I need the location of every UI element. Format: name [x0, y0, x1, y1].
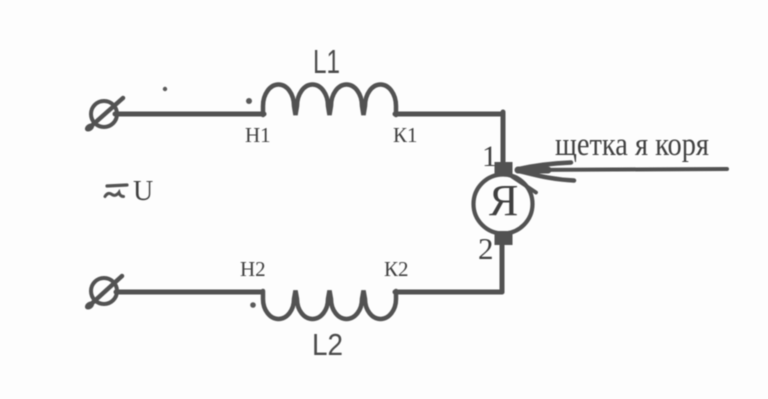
- node dot below L2 start: [250, 302, 256, 308]
- svg-text:Я: Я: [489, 176, 518, 225]
- svg-text:Н1: Н1: [245, 123, 271, 147]
- terminal X1 (top-left plug symbol): [83, 98, 123, 133]
- arrow head core: [518, 167, 548, 174]
- wire vertical down from brush 2: [500, 243, 505, 292]
- AC symbol (line over tilde): [105, 185, 127, 197]
- brush 1 (top brush, filled block): [495, 162, 513, 176]
- brush 2 (bottom brush, filled block): [495, 231, 513, 245]
- wire top rail left segment: [115, 112, 264, 117]
- svg-text:U: U: [133, 176, 153, 207]
- svg-text:К2: К2: [384, 257, 409, 281]
- svg-text:L1: L1: [313, 43, 340, 80]
- brush hatch stroke: [508, 174, 537, 193]
- svg-text:Н2: Н2: [240, 257, 266, 281]
- arrow head barb lower: [519, 171, 574, 181]
- svg-text:L2: L2: [312, 327, 343, 362]
- arrow (leader to brush) shaft: [521, 169, 727, 170]
- wire top rail right segment: [395, 112, 503, 117]
- svg-text:щетка я коря: щетка я коря: [555, 127, 709, 163]
- svg-text:2: 2: [478, 231, 494, 266]
- svg-text:1: 1: [482, 140, 497, 173]
- svg-text:К1: К1: [393, 123, 418, 147]
- armature U1 (circle): [474, 175, 533, 234]
- node dot near H1: [246, 98, 252, 104]
- wire bottom rail left segment: [116, 290, 262, 295]
- wire bottom rail right segment: [395, 290, 502, 295]
- inductor L1 (winding, humps up): [263, 85, 396, 116]
- inductor L2 (winding, humps down): [263, 291, 396, 320]
- arrow head barb upper: [519, 163, 571, 170]
- node dot (stray mark): [163, 87, 167, 91]
- wire vertical down to brush 1: [501, 112, 506, 165]
- terminal X2 (bottom-left plug symbol): [83, 276, 122, 311]
